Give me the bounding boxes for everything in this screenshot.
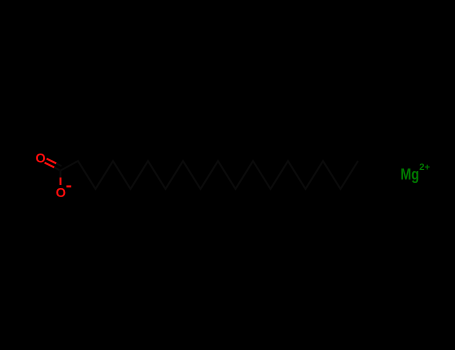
C=O double bond oxygen-side red halves (47, 159, 57, 164)
wire: alkyl chain C2-C18 zigzag (61, 161, 359, 189)
node minus charge (66, 185, 71, 187)
svg-text:Mg: Mg (401, 166, 420, 183)
wire: C1-O(-) bond oxygen-side red half (60, 178, 62, 186)
wire: C1-O(-) bond carbon-side half (60, 171, 62, 179)
svg-text:2+: 2+ (419, 162, 430, 172)
svg-text:O: O (36, 150, 46, 165)
svg-text:O: O (56, 185, 66, 200)
wire: C1=O double bond carbon-side halves (56, 163, 61, 166)
